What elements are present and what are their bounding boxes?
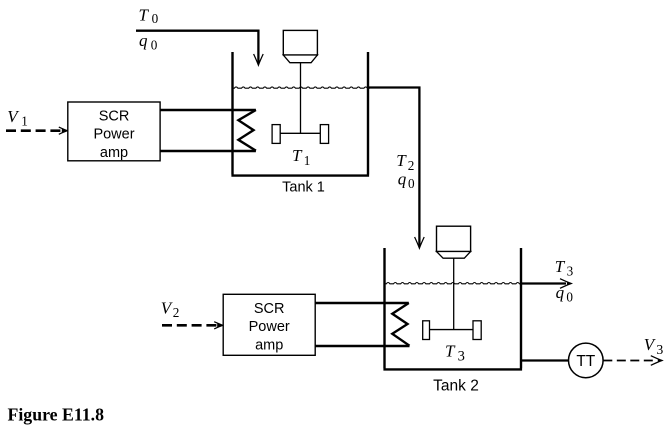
- resistor R1: heater zigzag in Tank 1: [238, 110, 256, 151]
- svg-text:Figure E11.8: Figure E11.8: [8, 405, 105, 425]
- wire: heater lead bottom (SCR 2 to R2): [315, 345, 409, 347]
- wire: heater lead top (SCR 2 to R2): [315, 302, 409, 304]
- label T0: [139, 5, 159, 26]
- svg-text:q: q: [139, 31, 148, 50]
- stirrer motor M1: [283, 30, 317, 62]
- svg-text:Tank 2: Tank 2: [433, 377, 479, 394]
- svg-text:SCR: SCR: [99, 108, 130, 124]
- wire: dashed signal V2 to SCR amp 2: [162, 322, 223, 329]
- svg-text:T: T: [292, 146, 303, 165]
- wire: dashed signal V1 to SCR amp 1: [6, 127, 67, 134]
- label V3: [644, 335, 664, 357]
- svg-text:T: T: [139, 5, 150, 24]
- resistor R2: heater zigzag in Tank 2: [392, 303, 409, 346]
- label q0 outlet: [556, 283, 574, 305]
- wire: Tank 2 to transmitter TT: [521, 359, 569, 361]
- svg-text:2: 2: [173, 305, 180, 320]
- svg-text:0: 0: [408, 176, 415, 191]
- svg-text:T: T: [396, 151, 407, 170]
- svg-text:0: 0: [152, 11, 159, 26]
- label V2: [161, 299, 180, 321]
- svg-text:3: 3: [458, 349, 465, 365]
- tank 1 vessel walls: [231, 52, 369, 176]
- svg-text:T: T: [555, 257, 566, 276]
- svg-text:Power: Power: [93, 127, 134, 143]
- svg-text:3: 3: [567, 263, 574, 278]
- label V1: [7, 107, 28, 128]
- wire: inlet stream T0/q0 into Tank 1: [136, 31, 263, 65]
- svg-text:Tank 1: Tank 1: [282, 180, 325, 196]
- svg-text:Power: Power: [249, 319, 290, 335]
- svg-text:1: 1: [21, 113, 28, 128]
- tank 2 vessel walls: [383, 248, 522, 369]
- stirrer shaft 1: [300, 63, 302, 134]
- impeller 1: [272, 125, 328, 144]
- svg-text:0: 0: [151, 37, 158, 52]
- label q0 inlet flow: [139, 31, 158, 53]
- svg-text:2: 2: [408, 158, 415, 173]
- wire: outlet stream from Tank 2: [521, 279, 571, 289]
- svg-text:q: q: [556, 283, 565, 302]
- svg-text:1: 1: [304, 153, 311, 168]
- label T3 in tank 2: [445, 341, 465, 364]
- temperature transmitter TT: [569, 343, 604, 378]
- svg-text:amp: amp: [255, 338, 283, 354]
- label T2: [396, 151, 414, 173]
- svg-text:q: q: [398, 170, 407, 189]
- svg-text:T: T: [445, 341, 456, 360]
- wire: heater lead top (SCR 1 to R1): [160, 109, 256, 111]
- svg-text:3: 3: [656, 342, 663, 357]
- svg-text:TT: TT: [576, 353, 595, 370]
- wire: heater lead bottom (SCR 1 to R1): [160, 150, 256, 152]
- tank 1 liquid surface: [233, 87, 370, 88]
- svg-text:SCR: SCR: [254, 301, 285, 317]
- label q0 stream to tank 2: [398, 170, 415, 192]
- impeller 2: [423, 321, 482, 340]
- wire: stream T2/q0 from Tank 1 to Tank 2: [368, 88, 424, 249]
- svg-text:0: 0: [566, 289, 573, 304]
- label T1: [292, 146, 310, 168]
- op-amp U2: SCR power amp 2: [223, 294, 315, 355]
- tank 2 liquid surface: [385, 283, 522, 284]
- label T3 outlet: [555, 257, 574, 279]
- wire: dashed signal V3 from TT: [603, 356, 662, 366]
- stirrer motor M2: [437, 226, 471, 258]
- op-amp U1: SCR power amp 1: [68, 102, 160, 161]
- svg-text:amp: amp: [100, 145, 128, 161]
- stirrer shaft 2: [453, 258, 455, 329]
